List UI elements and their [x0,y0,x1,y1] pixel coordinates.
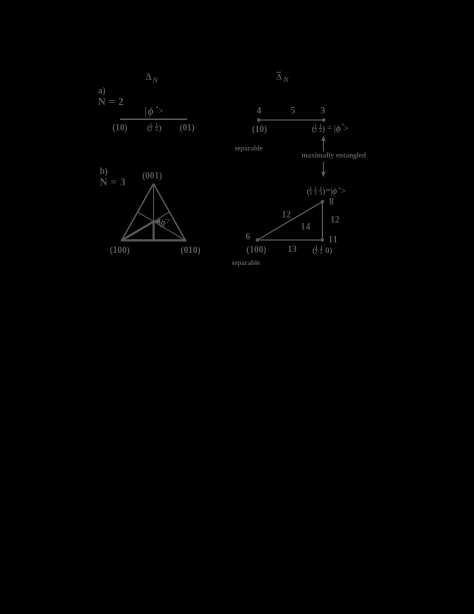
svg-text:2: 2 [314,128,317,134]
svg-text:): ) [322,124,325,134]
svg-text:(10): (10) [252,124,267,134]
svg-text:>: > [341,186,346,196]
node dot left (10) [257,118,260,121]
svg-text:2: 2 [320,249,323,255]
node label (1/2 1/2) = |psi+> [312,123,349,135]
arrow down (to maximally entangled state N=3) [321,162,326,177]
triangle c hypotenuse [257,202,322,240]
svg-text:13: 13 [288,244,298,254]
triangle b left edge [122,184,154,241]
svg-text:(001): (001) [142,170,162,180]
svg-text:N: N [152,76,159,85]
svg-text:N = 2: N = 2 [98,97,124,108]
svg-text:12: 12 [282,209,292,219]
svg-text:>: > [159,106,164,116]
svg-text:3: 3 [321,106,326,116]
svg-text:2: 2 [155,127,158,133]
node dot top (1/3 1/3 1/3) [321,200,324,203]
svg-text:separable: separable [235,144,263,153]
median BL to right edge midpoint, thin half [154,212,170,222]
svg-text:8: 8 [329,197,334,207]
svg-text:6: 6 [246,232,251,242]
svg-text:maximally entangled: maximally entangled [302,150,367,159]
ket |psi> above segment a [145,106,164,118]
svg-text:N = 3: N = 3 [100,178,126,189]
node dot right (1/2 1/2) [322,118,325,121]
svg-text:N: N [282,75,289,84]
svg-text:(010): (010) [181,245,201,255]
svg-text:|: | [145,107,147,118]
median apex to bottom mid, lower bold half [153,222,155,241]
svg-text:ϕ: ϕ [148,107,154,118]
median BL to right edge midpoint, bold half [122,222,154,241]
svg-text:Δ: Δ [276,72,282,82]
psi arrow at centroid [154,218,160,224]
svg-text:a): a) [98,86,106,96]
svg-text:2: 2 [150,127,153,133]
svg-text:ϕ: ϕ [336,124,341,134]
triangle b right edge [154,184,186,241]
triangle c bottom edge [257,239,322,241]
arrow up (to maximally entangled state N=2) [321,136,326,152]
svg-text:b): b) [100,166,108,176]
svg-text:Δ: Δ [146,73,152,83]
header Delta_N (left simplex label) [146,73,159,85]
node dot bottom right (1/2 1/2 0) [321,238,324,241]
svg-text:11: 11 [328,234,338,244]
svg-text:4: 4 [257,107,262,117]
svg-text:(100): (100) [110,245,130,255]
wire segment a (N=2 simplex line) [120,118,187,120]
vertex label (1/2 1/2 0) [312,245,332,256]
triangle c right edge [321,202,323,240]
svg-text:>: > [344,123,349,133]
header Delta-tilde_N (right ordered simplex label) [276,72,289,84]
svg-text:12: 12 [331,214,341,224]
psi label at centroid [157,215,172,229]
svg-text:): ) [159,122,162,132]
median BR to left edge midpoint [138,212,186,240]
svg-text:separable: separable [232,258,261,267]
svg-text:2: 2 [315,249,318,255]
node label (1/2 1/2) middle [147,122,162,133]
svg-text:(01): (01) [180,123,195,133]
svg-text:3: 3 [314,191,317,197]
triangle b bottom edge (bold) [121,239,187,241]
svg-text:=: = [327,123,332,133]
svg-text:0): 0) [325,245,332,255]
svg-text:14: 14 [301,222,311,232]
node dot left (100) [256,238,259,241]
svg-text:5: 5 [291,106,296,116]
node label (1/3 1/3 1/3) = |psi+> [307,185,347,197]
median apex to bottom mid, upper thin half [153,184,155,222]
svg-text:(10): (10) [112,123,127,133]
svg-text:(100): (100) [246,245,266,255]
wire segment right (ordered N=2 simplex) [259,119,324,121]
svg-text:3: 3 [309,191,312,197]
svg-text:ϕ: ϕ [332,186,337,196]
